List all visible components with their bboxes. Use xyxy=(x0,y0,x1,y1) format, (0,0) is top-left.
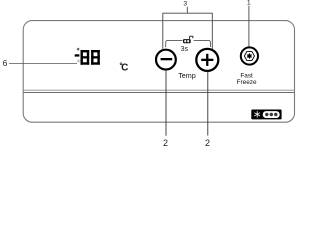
svg-text:Temp: Temp xyxy=(178,71,196,80)
badge lamp dots xyxy=(265,113,268,116)
leader line from 6 to display xyxy=(9,62,77,64)
degree C unit label xyxy=(120,63,122,65)
inner 3s bracket left xyxy=(166,40,183,47)
plus sign xyxy=(201,59,213,61)
leader line from plus button to label 2 xyxy=(207,72,209,136)
leader line from 1 to fast freeze button xyxy=(248,6,250,47)
lock icon shackle xyxy=(190,36,193,39)
svg-text:3: 3 xyxy=(183,1,187,8)
fast freeze button outer circle xyxy=(241,47,258,64)
svg-text:1: 1 xyxy=(247,0,251,7)
leader line from minus button to label 2 xyxy=(165,71,167,136)
display minus sign xyxy=(75,54,80,56)
label 3 stem xyxy=(186,7,188,13)
temp plus button xyxy=(196,49,218,71)
faint inactive snowflake below minus xyxy=(77,59,80,63)
outer callout bracket for label 3 xyxy=(163,13,213,49)
svg-text:Freeze: Freeze xyxy=(237,79,257,86)
seven segment digit 8 (first) xyxy=(81,50,90,65)
lock icon windows xyxy=(184,40,186,42)
temp minus button xyxy=(156,50,176,70)
lock icon body xyxy=(183,39,191,43)
badge snowflake xyxy=(254,111,260,117)
display small asterisk icon xyxy=(77,48,79,51)
badge lamp pill xyxy=(263,111,280,118)
panel seam lower line xyxy=(23,92,294,94)
panel seam upper line xyxy=(23,89,294,91)
interior light badge background xyxy=(251,110,281,120)
svg-text:3s: 3s xyxy=(181,44,189,53)
svg-text:2: 2 xyxy=(163,138,168,147)
svg-text:2: 2 xyxy=(205,138,210,147)
minus sign xyxy=(161,58,173,60)
svg-text:6: 6 xyxy=(3,58,8,68)
fast freeze hexagon xyxy=(244,52,254,61)
inner 3s bracket right xyxy=(194,40,211,47)
svg-text:C: C xyxy=(121,63,128,74)
seven segment digit 8 (second) xyxy=(91,50,100,65)
panel outline xyxy=(23,21,294,123)
fast freeze snowflake star xyxy=(247,53,252,59)
